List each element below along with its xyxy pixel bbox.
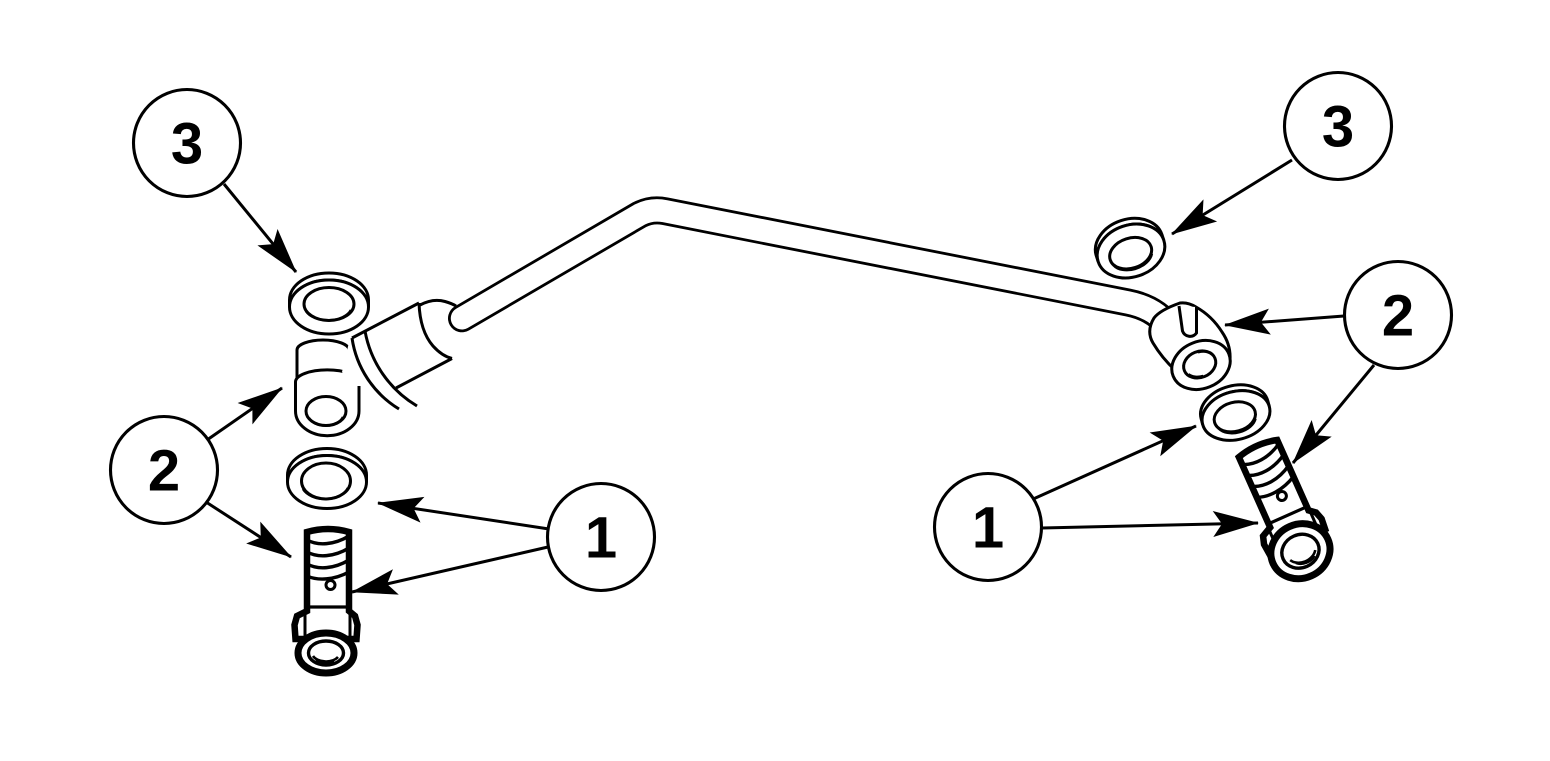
arrow from callout 1 left to bolt [352,547,548,592]
pipe end between yoke prongs [1179,306,1197,336]
callout circle 3 left [134,90,241,197]
arrow from callout 2 right to bolt [1293,365,1374,463]
left elbow bend arcs [352,338,399,409]
washer 3 left [290,273,369,334]
banjo bolt left (item 1) [295,529,358,673]
svg-text:3: 3 [171,112,203,177]
arrow from callout 3 right [1172,160,1292,234]
washer left middle (item 2 seal) [288,449,367,509]
svg-text:2: 2 [148,439,180,504]
pipe assembly (main tube) [462,210,1192,351]
callout circle 1 right [935,474,1042,581]
washer right lower (item 2 seal) [1195,378,1276,448]
arrow from callout 3 left [224,184,296,272]
callout circle 2 left [111,417,218,524]
svg-text:3: 3 [1322,95,1354,160]
left hose fitting body fill [342,298,474,409]
svg-text:1: 1 [585,506,617,571]
arrow from callout 1 right to bolt [1042,523,1258,528]
washer 3 right [1088,210,1172,286]
svg-text:1: 1 [972,496,1004,561]
arrow from callout 2 right to fitting [1225,316,1344,325]
arrow from callout 2 left to fitting [207,388,282,440]
arrow from callout 2 left to bolt [206,502,291,557]
svg-text:2: 2 [1382,284,1414,349]
left hose fitting cylinder edges (item 2 left) [352,300,456,411]
left elbow bore hole [306,397,346,426]
banjo bolt right (item 1) [1226,434,1341,588]
callout circle 1 left [548,484,655,591]
left banjo elbow neck [297,340,349,383]
arrow from callout 1 left to washer [378,503,549,529]
callout circle 3 right [1285,73,1392,180]
banjo eye face [1164,332,1237,398]
right yoke fitting (item 2 right) [1150,303,1238,398]
arrow from callout 1 right to washer [1031,426,1196,500]
left banjo elbow drum [296,370,360,436]
callout circle 2 right [1345,262,1452,369]
